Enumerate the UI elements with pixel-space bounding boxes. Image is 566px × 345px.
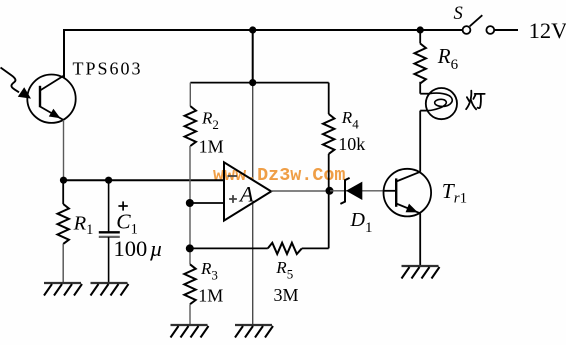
wire: op-amp supply/ground vertical line (drawn under op-amp) [252,30,254,325]
ground for C1 [91,283,129,296]
label lamp 灯 (drawn glyph) [466,91,485,110]
node: top rail to R6 [417,26,424,33]
svg-text:1M: 1M [199,137,224,157]
resistor R5 [268,243,329,305]
ground for Tr1 [402,266,440,279]
lamp 灯 [420,88,457,119]
svg-text:A: A [238,181,254,206]
wire: to + input [190,202,225,204]
svg-text:1M: 1M [198,286,223,306]
wire: op-amp output [271,190,330,192]
wire: emitter down to node row [63,120,65,180]
transistor Q Tr1 [384,169,468,217]
node: rail to supply line [249,79,256,86]
svg-text:12V: 12V [529,18,566,43]
phototransistor Q TPS603 [27,75,75,123]
ground for op-amp supply line [235,325,273,338]
node: output [326,187,334,195]
ground for R1 [44,283,82,296]
resistor R6 [415,30,459,83]
capacitor C1 [99,180,163,283]
resistor R2 [185,83,224,157]
switch S [454,4,495,34]
wire: R2 bottom to R3 top (divider net) [189,146,191,264]
node B [105,177,112,184]
wire: switch to 12V [494,29,518,31]
wire: R5 up to output node [328,191,330,248]
resistor R3 [184,259,223,325]
svg-text:TPS603: TPS603 [73,59,143,79]
op-amp U1 A [224,162,271,220]
wire: R5 row [190,247,268,249]
wire: R2/R4 top rail [190,82,328,84]
node: + input tap [186,199,194,207]
light arrow into phototransistor [1,68,32,99]
svg-text:S: S [454,4,463,24]
svg-text:100µ: 100µ [114,236,163,261]
svg-text:10k: 10k [338,134,365,154]
node: top rail to op-amp supply [249,26,256,33]
op-amp U A white body fill [224,162,271,220]
resistor R4 [323,83,365,191]
wire: top supply rail [64,30,463,78]
node A [60,177,67,184]
node: R3/R5 tap [186,244,194,252]
wire: emitter to ground [419,213,421,266]
resistor R1 [58,180,94,283]
diode D1 (zener) [330,178,384,236]
wire: R6 to lamp [419,82,421,94]
svg-text:3M: 3M [274,285,299,305]
ground for R3 [171,325,209,338]
wire: node row (inverting input net) [63,179,224,181]
wire: collector up to lamp [419,111,421,172]
